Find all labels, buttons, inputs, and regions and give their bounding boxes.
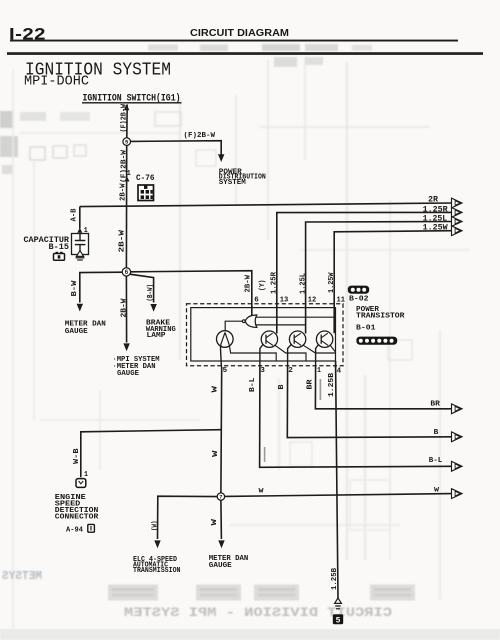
arrow out 2R — [452, 198, 463, 208]
svg-text:SYSTEM: SYSTEM — [219, 179, 246, 187]
arrow out BR — [452, 404, 463, 414]
header rule upper — [10, 40, 458, 42]
subtitle MPI-DOHC — [24, 75, 89, 90]
wire pin 5 to junction 7 — [220, 367, 223, 493]
pin 1 number — [317, 367, 321, 375]
power transistor inner case rect — [191, 308, 336, 361]
wire Q3 collector to case bottom — [303, 345, 336, 353]
wire 1.25L rail to pin 12 — [306, 222, 452, 334]
label B-02 — [349, 296, 369, 304]
transistor Q1 — [217, 331, 234, 348]
wire Q3 emitter to pin 2 — [288, 344, 292, 367]
wire pin 2 to B arrow — [287, 367, 452, 438]
wire label 1.25L right — [423, 214, 448, 223]
transistor Q3 — [289, 331, 305, 347]
wire junction 5 to power distribution branch — [131, 141, 222, 155]
wire label 1.25W at pin 11 — [328, 272, 336, 293]
gate output line to pin 12 wire — [256, 324, 306, 326]
svg-text:1.25L: 1.25L — [423, 214, 448, 223]
svg-text:1: 1 — [127, 170, 131, 178]
label ELC 4-SPEED AUTOMATIC TRANSMISSION — [133, 556, 181, 575]
svg-text:5: 5 — [223, 367, 228, 375]
svg-text:4: 4 — [337, 368, 342, 376]
pin 12 number — [308, 296, 317, 304]
engine speed connector icon — [76, 479, 86, 488]
wire pin 1 to BR arrow — [315, 367, 452, 409]
svg-text:B-02: B-02 — [349, 296, 369, 304]
pin 4 tick to case corner — [335, 361, 337, 368]
arrowhead to meter and gauge — [77, 304, 83, 312]
wire label BR right — [430, 401, 440, 409]
wire label B at pin 2 — [278, 384, 286, 390]
wire junction 6 to brake warning lamp — [130, 274, 154, 302]
wire junction 5 to junction 6 — [125, 145, 127, 268]
svg-text:CIRCUIT DIVISION - MPI SYSTEM: CIRCUIT DIVISION - MPI SYSTEM — [124, 606, 392, 620]
svg-text:METSYS: METSYS — [2, 569, 42, 583]
svg-text:1: 1 — [84, 471, 88, 479]
ground point 5 icon — [333, 614, 343, 625]
wire junction 6 to meter gauge branch — [80, 272, 122, 302]
wire label 1.25R at pin 13 — [271, 272, 279, 294]
svg-text:W-B: W-B — [73, 448, 81, 464]
svg-text:BR: BR — [430, 401, 440, 409]
wire label B-W meter branch — [71, 280, 79, 297]
capacitor ground triangle — [76, 251, 83, 257]
wire label 1.25W right — [423, 224, 448, 233]
wire Q2 collector to case bottom — [274, 345, 306, 361]
connector C-76 icon — [138, 185, 154, 201]
wire junction 6 to power transistor pin 6 — [131, 271, 252, 316]
label CAPACITOR — [24, 236, 70, 245]
svg-text:TRANSMISSION: TRANSMISSION — [133, 567, 181, 575]
label METER DAN GAUGE upper — [65, 321, 106, 336]
svg-text:B-01: B-01 — [356, 325, 376, 333]
svg-text:2B-W: 2B-W — [119, 229, 127, 252]
pin 2 number — [288, 367, 293, 375]
svg-text:6: 6 — [125, 269, 129, 276]
svg-text:6: 6 — [254, 296, 259, 304]
wire junction 7 down to meter gauge — [220, 500, 223, 539]
wire label (B-W) brake branch — [147, 284, 155, 302]
svg-text:(F)2B-W: (F)2B-W — [121, 104, 129, 133]
wire Q2 emitter to pin 3 — [260, 344, 264, 367]
arrow out B-L — [452, 461, 463, 471]
svg-text:MPI-DOHC: MPI-DOHC — [24, 75, 89, 90]
svg-text:B-L: B-L — [249, 377, 257, 392]
svg-text:2B-W: 2B-W — [121, 298, 129, 318]
wire ignition switch to junction 5 — [126, 105, 128, 139]
svg-text:GAUGE: GAUGE — [209, 562, 232, 570]
wire label B right — [434, 429, 439, 437]
arrow out 1.25L — [452, 217, 463, 227]
svg-text:A-94: A-94 — [66, 527, 83, 535]
wire engine speed connector to junction line — [81, 430, 221, 478]
title IGNITION SYSTEM — [25, 61, 171, 81]
gate feed line to transistor Q1 — [225, 321, 242, 331]
wire label W upper — [211, 385, 219, 392]
engine speed connector pin 1 — [84, 471, 88, 479]
pin 13 number — [280, 296, 289, 304]
label ENGINE SPEED DETECTION CONNECTOR — [55, 494, 99, 521]
wire label 2B-W above junction 6 — [119, 229, 127, 252]
label B-15 — [49, 243, 70, 252]
svg-text:1.25R: 1.25R — [423, 205, 448, 214]
connector A-94 icon — [88, 524, 95, 532]
svg-text:W: W — [211, 385, 219, 392]
arrow out 1.25W — [452, 226, 463, 236]
junction 5 — [123, 138, 131, 146]
wire Q4 collector to case edge — [330, 345, 336, 352]
wire label B-L at pin 3 — [249, 377, 257, 392]
gate output line to pin 11 wire — [256, 316, 334, 318]
junction 7 — [217, 493, 224, 501]
svg-text:2: 2 — [288, 367, 293, 375]
wire 1.25W rail to pin 11 — [334, 231, 452, 334]
svg-text:(W): (W) — [151, 521, 159, 532]
svg-text:2B-W: 2B-W — [119, 183, 127, 201]
direction mark on BR wire — [319, 379, 321, 400]
capacitor symbol — [75, 234, 86, 252]
svg-text:W: W — [259, 487, 264, 494]
svg-text:CONNECTOR: CONNECTOR — [55, 514, 99, 522]
wire 1.25R rail to pin 13 — [277, 212, 452, 333]
wire label 2B-W above capacitor tap — [119, 183, 127, 201]
svg-text:12: 12 — [308, 296, 317, 304]
svg-text:W: W — [212, 450, 220, 457]
arrowhead to ELC transmission — [154, 540, 160, 548]
wire label (Y) at pin 6 — [259, 280, 267, 292]
wire label W on line left — [259, 487, 264, 494]
connector C-76 pin 1 — [125, 170, 131, 182]
wire label 1.25L at pin 12 — [300, 273, 308, 294]
wire label (F)2B-W branch — [184, 132, 216, 140]
wire label W mid — [212, 450, 220, 457]
direction mark on B-L wire — [264, 447, 266, 462]
ignition switch label IGNITION SWITCH(IG1) — [82, 93, 182, 105]
capacitor B-15 box — [72, 234, 89, 255]
svg-text:B-L: B-L — [429, 457, 443, 465]
arrowhead to MPI system — [123, 343, 129, 351]
label POWER DISTRIBUTION SYSTEM — [219, 168, 266, 187]
wire 2R capacitor line to right arrow — [80, 203, 452, 207]
arrowhead to meter dan gauge lower — [218, 540, 224, 548]
pin 6 number — [254, 296, 259, 304]
svg-text:(Y): (Y) — [259, 280, 267, 292]
wire Q1 collector to case bottom — [229, 345, 276, 362]
svg-text:W: W — [211, 518, 219, 525]
wire capacitor stub — [79, 207, 81, 229]
svg-text:CIRCUIT DIAGRAM: CIRCUIT DIAGRAM — [190, 27, 289, 39]
wire label 1.25B lower — [331, 568, 339, 590]
svg-text:1: 1 — [317, 367, 321, 375]
page header title CIRCUIT DIAGRAM — [190, 27, 289, 39]
wire label B-L right — [429, 457, 443, 465]
svg-text:LAMP: LAMP — [147, 332, 167, 340]
arrow out B — [452, 432, 463, 442]
pin 3 number — [260, 367, 265, 375]
arrowhead to power distribution system — [218, 154, 224, 162]
connector B-15 icon — [54, 252, 65, 260]
arrowhead up to ignition switch — [124, 104, 130, 110]
arrow out 1.25R — [452, 208, 463, 218]
svg-text:(B-W): (B-W) — [147, 284, 155, 302]
svg-text:B: B — [434, 429, 439, 437]
svg-text:7: 7 — [219, 495, 222, 501]
label BRAKE WARNING LAMP — [146, 320, 176, 341]
transistor Q2 — [261, 331, 277, 347]
wire label 2R — [428, 196, 438, 205]
svg-text:11: 11 — [337, 297, 346, 305]
label POWER TRANSISTOR — [356, 306, 405, 321]
wire junction 7 to ELC branch — [158, 496, 218, 539]
wire Q4 emitter to pin 1 — [316, 344, 319, 367]
svg-text:1.25R: 1.25R — [271, 272, 279, 294]
arrowhead to brake warning lamp — [150, 304, 156, 312]
junction 6 — [122, 268, 130, 276]
capacitor earth lines — [76, 258, 85, 260]
svg-text:1.25L: 1.25L — [300, 273, 308, 294]
svg-text:C-76: C-76 — [136, 174, 155, 183]
wire label W on line right — [434, 486, 439, 493]
svg-text:TRANSISTOR: TRANSISTOR — [356, 313, 405, 321]
svg-text:GAUGE: GAUGE — [117, 370, 139, 378]
connector B-02 icon — [348, 286, 369, 294]
wire label (W) ELC branch — [151, 521, 159, 532]
wire label 2B-W to MPI system — [121, 298, 129, 318]
svg-text:B-15: B-15 — [49, 243, 70, 252]
pin 4 number — [337, 368, 342, 376]
label B-01 — [356, 325, 376, 333]
svg-text:2R: 2R — [428, 196, 438, 205]
wire Q1 emitter to pin 5 — [220, 345, 223, 367]
wire label W-B — [73, 448, 81, 464]
svg-text:(F)2B-W: (F)2B-W — [184, 132, 216, 140]
svg-text:1.25W: 1.25W — [423, 224, 448, 233]
gate U1 — [242, 315, 256, 327]
wire junction 7 to right W arrow — [225, 494, 452, 497]
header rule lower — [7, 52, 483, 55]
page header number I-22 — [9, 25, 46, 44]
svg-text:1.25B: 1.25B — [331, 568, 339, 590]
wire label (F)2B-W below junction 5 — [120, 149, 128, 183]
svg-text:GAUGE: GAUGE — [65, 328, 88, 336]
svg-text:2B-W: 2B-W — [245, 275, 253, 293]
wire pin 4 to ground — [336, 367, 338, 599]
wire pin 3 to B-L arrow — [260, 367, 452, 468]
ground triangle — [335, 598, 342, 603]
svg-text:BR: BR — [307, 379, 315, 390]
label METER DAN GAUGE lower — [209, 555, 249, 570]
label MPI SYSTEM / METER DAN GAUGE — [113, 356, 160, 378]
wire label (F)2B-W upper — [121, 104, 129, 133]
wire label 2B-W at pin 6 — [245, 275, 253, 293]
svg-text:1.25B: 1.25B — [328, 372, 336, 397]
connector C-76 designator — [136, 174, 155, 183]
wire label BR at pin 1 — [307, 379, 315, 390]
capacitor pin 1 — [77, 227, 88, 235]
arrow out W — [452, 489, 463, 499]
wire label 1.25R right — [423, 205, 448, 214]
svg-text:A-B: A-B — [70, 208, 78, 221]
svg-text:5: 5 — [336, 617, 341, 626]
svg-text:B: B — [278, 384, 286, 390]
svg-text:13: 13 — [280, 296, 289, 304]
svg-text:W: W — [434, 486, 439, 493]
svg-text:1.25W: 1.25W — [328, 272, 336, 293]
transistor Q4 — [316, 331, 332, 347]
connector B-01 icon — [356, 337, 397, 345]
ground earth lines — [335, 606, 340, 609]
pin 11 number — [337, 297, 346, 305]
wire label W lower — [211, 518, 219, 525]
svg-text:B-W: B-W — [71, 280, 79, 297]
svg-text:3: 3 — [260, 367, 265, 375]
power transistor dashed box — [187, 304, 344, 366]
pin 5 number — [223, 367, 228, 375]
label A-94 — [66, 527, 83, 535]
wire label A-B — [70, 208, 78, 221]
wire junction 6 down to MPI system — [125, 276, 127, 342]
wire label 1.25B at pin 4 — [328, 372, 336, 397]
